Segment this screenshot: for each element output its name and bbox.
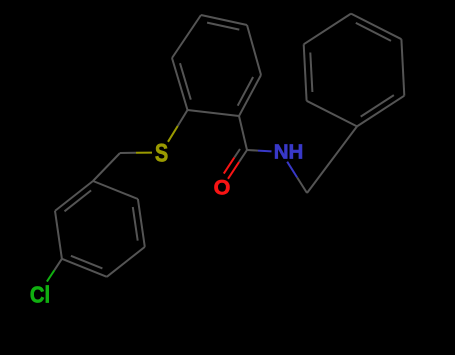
wire: CH2 to ring C bbox=[307, 126, 357, 193]
atom NH label bbox=[273, 143, 304, 161]
double bond C=O second line bbox=[234, 149, 240, 158]
bond N-CH2 bbox=[287, 162, 297, 178]
svg-text:O: O bbox=[214, 176, 231, 200]
svg-text:S: S bbox=[155, 139, 168, 167]
bond C-N amide bbox=[247, 149, 258, 152]
svg-text:Cl: Cl bbox=[30, 281, 50, 308]
atom O label bbox=[213, 180, 231, 198]
bond ring A to Cl bbox=[54, 259, 62, 270]
benzene ring B (central) bbox=[172, 15, 261, 116]
atom S label bbox=[154, 143, 169, 163]
wire: ring A to benzylic CH2 bbox=[93, 153, 120, 181]
double bond C=O main line bbox=[239, 150, 247, 162]
benzene ring C (phenyl) bbox=[304, 14, 405, 127]
atom Cl label bbox=[30, 282, 50, 304]
bond CH2-S bbox=[120, 152, 136, 154]
benzene ring A (4-chlorophenyl) bbox=[55, 181, 145, 277]
bond S to ring B bbox=[168, 126, 178, 142]
svg-text:NH: NH bbox=[274, 140, 304, 163]
wire: ring B to carbonyl C bbox=[239, 116, 247, 150]
